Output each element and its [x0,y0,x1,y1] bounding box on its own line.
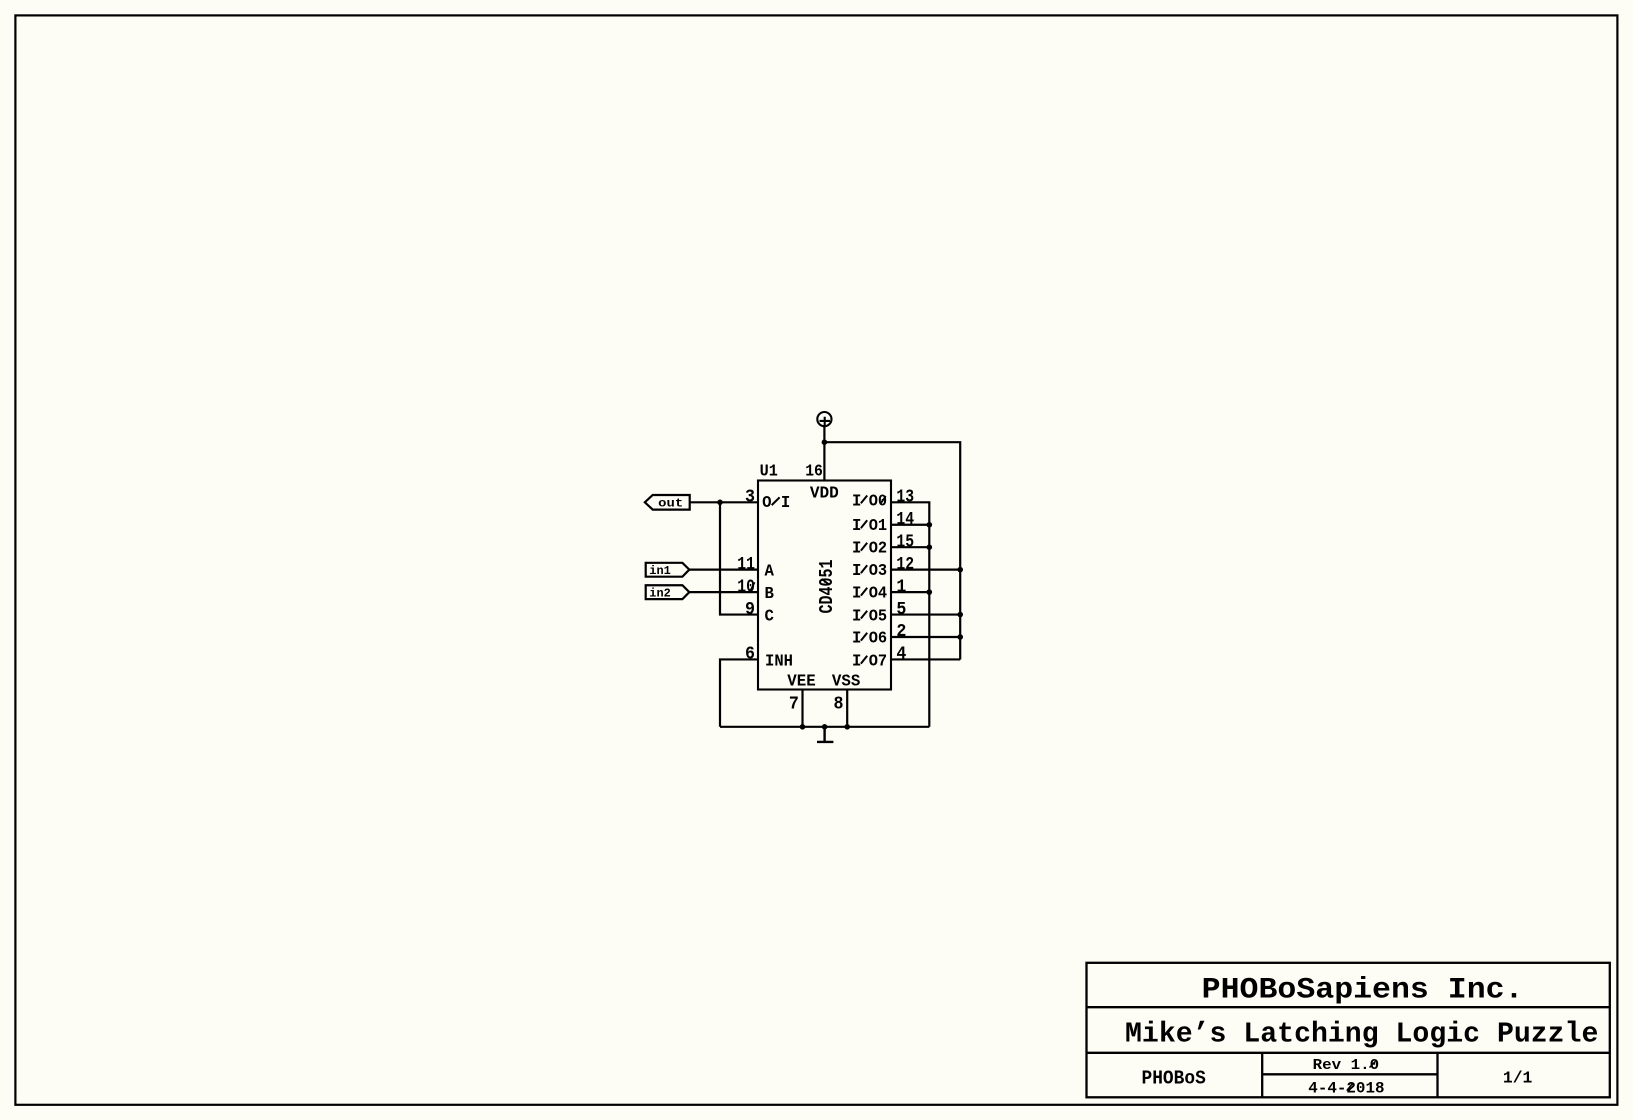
svg-text:I: I [852,540,861,559]
svg-text:O5: O5 [869,608,887,627]
wire VDD stem [823,427,825,481]
svg-text:14: 14 [896,510,914,530]
node pin15 [927,544,933,550]
svg-text:I: I [852,585,861,604]
svg-text:16: 16 [805,462,823,481]
svg-text:O3: O3 [869,562,887,581]
svg-text:O0: O0 [869,492,887,511]
title block frame [1087,963,1610,1098]
node out flag [645,495,690,511]
svg-text:4: 4 [896,645,906,665]
svg-text:PHOBoSapiens Inc.: PHOBoSapiens Inc. [1202,972,1524,1006]
node VSS-rail [844,724,850,730]
svg-text:I: I [852,517,861,536]
svg-text:U1: U1 [760,462,778,481]
svg-text:Mike’s Latching Logic Puzzle: Mike’s Latching Logic Puzzle [1125,1018,1598,1051]
wire out to pin 3 [690,501,758,503]
wire pin 4 right [891,658,960,660]
svg-text:1: 1 [896,577,906,597]
svg-text:VDD: VDD [810,484,839,503]
node pin5 [957,612,963,618]
svg-text:PHOBoS: PHOBoS [1142,1067,1206,1089]
svg-text:15: 15 [896,532,914,552]
svg-text:VEE: VEE [787,672,815,691]
svg-text:11: 11 [737,555,755,575]
svg-text:O4: O4 [869,585,887,604]
wire INH horizontal [720,659,758,726]
node pin14 [927,522,933,528]
svg-text:C: C [765,607,774,626]
wire pin 13 right [891,502,929,727]
wire in2 to pin 10 B [689,591,758,593]
wire out vertical to C [720,502,758,614]
svg-text:in1: in1 [649,564,671,578]
svg-text:O1: O1 [869,517,887,536]
svg-text:B: B [765,585,774,604]
svg-text:O: O [762,494,771,513]
wire pin 5 right [891,613,960,615]
svg-text:2: 2 [896,622,906,642]
svg-text:3: 3 [745,488,755,508]
wire in1 to pin 11 A [689,569,758,571]
value label CD4051 [816,559,838,613]
svg-text:Rev 1.0: Rev 1.0 [1313,1057,1380,1074]
svg-text:9: 9 [745,600,755,620]
wire bottom ground rail [720,726,929,728]
svg-text:12: 12 [896,555,914,575]
svg-text:I: I [852,492,861,511]
svg-text:1/1: 1/1 [1503,1070,1532,1089]
svg-text:I: I [852,630,861,649]
svg-text:I: I [852,608,861,627]
node in1 flag [646,563,690,578]
node pin2 [957,634,963,640]
ground [817,727,833,742]
svg-text:I: I [852,653,861,672]
node gnd-rail [822,724,828,730]
wire pin 1 right [891,591,929,593]
svg-text:in2: in2 [649,586,671,600]
node pin1 [927,589,933,595]
wire pin 15 right [891,546,929,548]
svg-text:7: 7 [789,695,799,715]
svg-text:13: 13 [896,488,914,508]
wire VEE stem pin 7 [801,690,803,727]
wire top rail [824,442,960,659]
node pin12 [957,567,963,573]
svg-text:O2: O2 [869,540,887,559]
svg-text:CD4051: CD4051 [816,559,838,613]
svg-text:5: 5 [896,600,906,620]
svg-text:VSS: VSS [832,672,860,691]
svg-text:O7: O7 [869,653,887,672]
svg-text:A: A [765,563,775,582]
power flag +V [817,412,831,426]
wire VSS stem pin 8 [846,690,848,727]
wire pin 14 right [891,524,929,526]
svg-text:I: I [852,562,861,581]
svg-text:6: 6 [745,645,755,665]
slashed zeros [881,496,886,504]
node junction at VDD rail [822,439,828,445]
wire pin 2 right [891,636,960,638]
svg-text:INH: INH [765,653,793,672]
svg-text:8: 8 [834,695,844,715]
svg-text:I: I [781,494,790,513]
svg-text:4-4-2018: 4-4-2018 [1308,1079,1384,1097]
node junction out [717,500,723,506]
wire pin 12 right [891,569,960,571]
svg-text:O6: O6 [869,630,887,649]
op-amp U1 body CD4051 [758,481,891,690]
svg-text:out: out [658,497,683,511]
node VEE-rail [800,724,806,730]
node in2 flag [646,585,690,600]
